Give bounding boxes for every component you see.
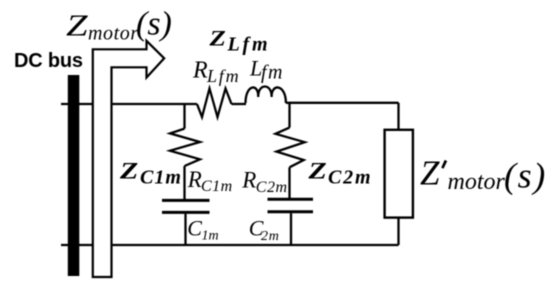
- svg-text:Z: Z: [307, 158, 326, 184]
- svg-text:Lfm: Lfm: [227, 34, 271, 56]
- svg-text:motor: motor: [448, 169, 506, 195]
- svg-text:2m: 2m: [261, 229, 280, 244]
- svg-text:motor: motor: [88, 23, 139, 45]
- wire right drop to motor box: [397, 103, 399, 130]
- svg-text:DC bus: DC bus: [14, 50, 83, 72]
- motor impedance box: [385, 130, 413, 218]
- svg-text:fm: fm: [261, 62, 284, 84]
- svg-text:C2m: C2m: [328, 166, 372, 188]
- DC bus bar: [68, 75, 80, 276]
- wire right branch middle: [288, 167, 290, 198]
- wire top right: [286, 102, 399, 104]
- resistor R_Lfm: [197, 89, 232, 118]
- svg-text:Lfm: Lfm: [206, 66, 240, 86]
- svg-text:C1m: C1m: [201, 178, 233, 195]
- svg-text:Z: Z: [208, 26, 225, 50]
- wire left branch middle: [183, 166, 185, 199]
- svg-text:C1m: C1m: [140, 166, 182, 188]
- svg-text:1m: 1m: [202, 228, 219, 243]
- svg-text:C: C: [187, 216, 202, 241]
- svg-text:C2m: C2m: [256, 179, 288, 196]
- wire top main: [61, 103, 197, 105]
- svg-text:R: R: [241, 168, 256, 193]
- svg-text:R: R: [187, 167, 202, 192]
- wire below motor box: [397, 218, 399, 246]
- capacitor C2m: [268, 199, 314, 212]
- wire left branch top: [183, 104, 185, 129]
- wire between R_Lfm and L_fm: [232, 103, 247, 105]
- capacitor C1m: [162, 200, 210, 212]
- svg-text:(s): (s): [504, 155, 547, 195]
- wire left branch bottom: [184, 214, 186, 245]
- resistor R_C1m: [170, 129, 200, 166]
- wire bottom return: [61, 244, 399, 246]
- resistor R_C2m: [276, 128, 305, 168]
- svg-text:R: R: [192, 58, 208, 84]
- svg-text:(s): (s): [136, 5, 172, 42]
- svg-text:Z: Z: [119, 158, 138, 184]
- inductor L_fm: [246, 87, 286, 104]
- wire right branch top: [288, 103, 290, 128]
- svg-text:Z: Z: [66, 8, 88, 42]
- wire right branch bottom: [290, 213, 292, 245]
- svg-text:Z: Z: [420, 154, 440, 193]
- arrow Zmotor(s): [93, 41, 164, 277]
